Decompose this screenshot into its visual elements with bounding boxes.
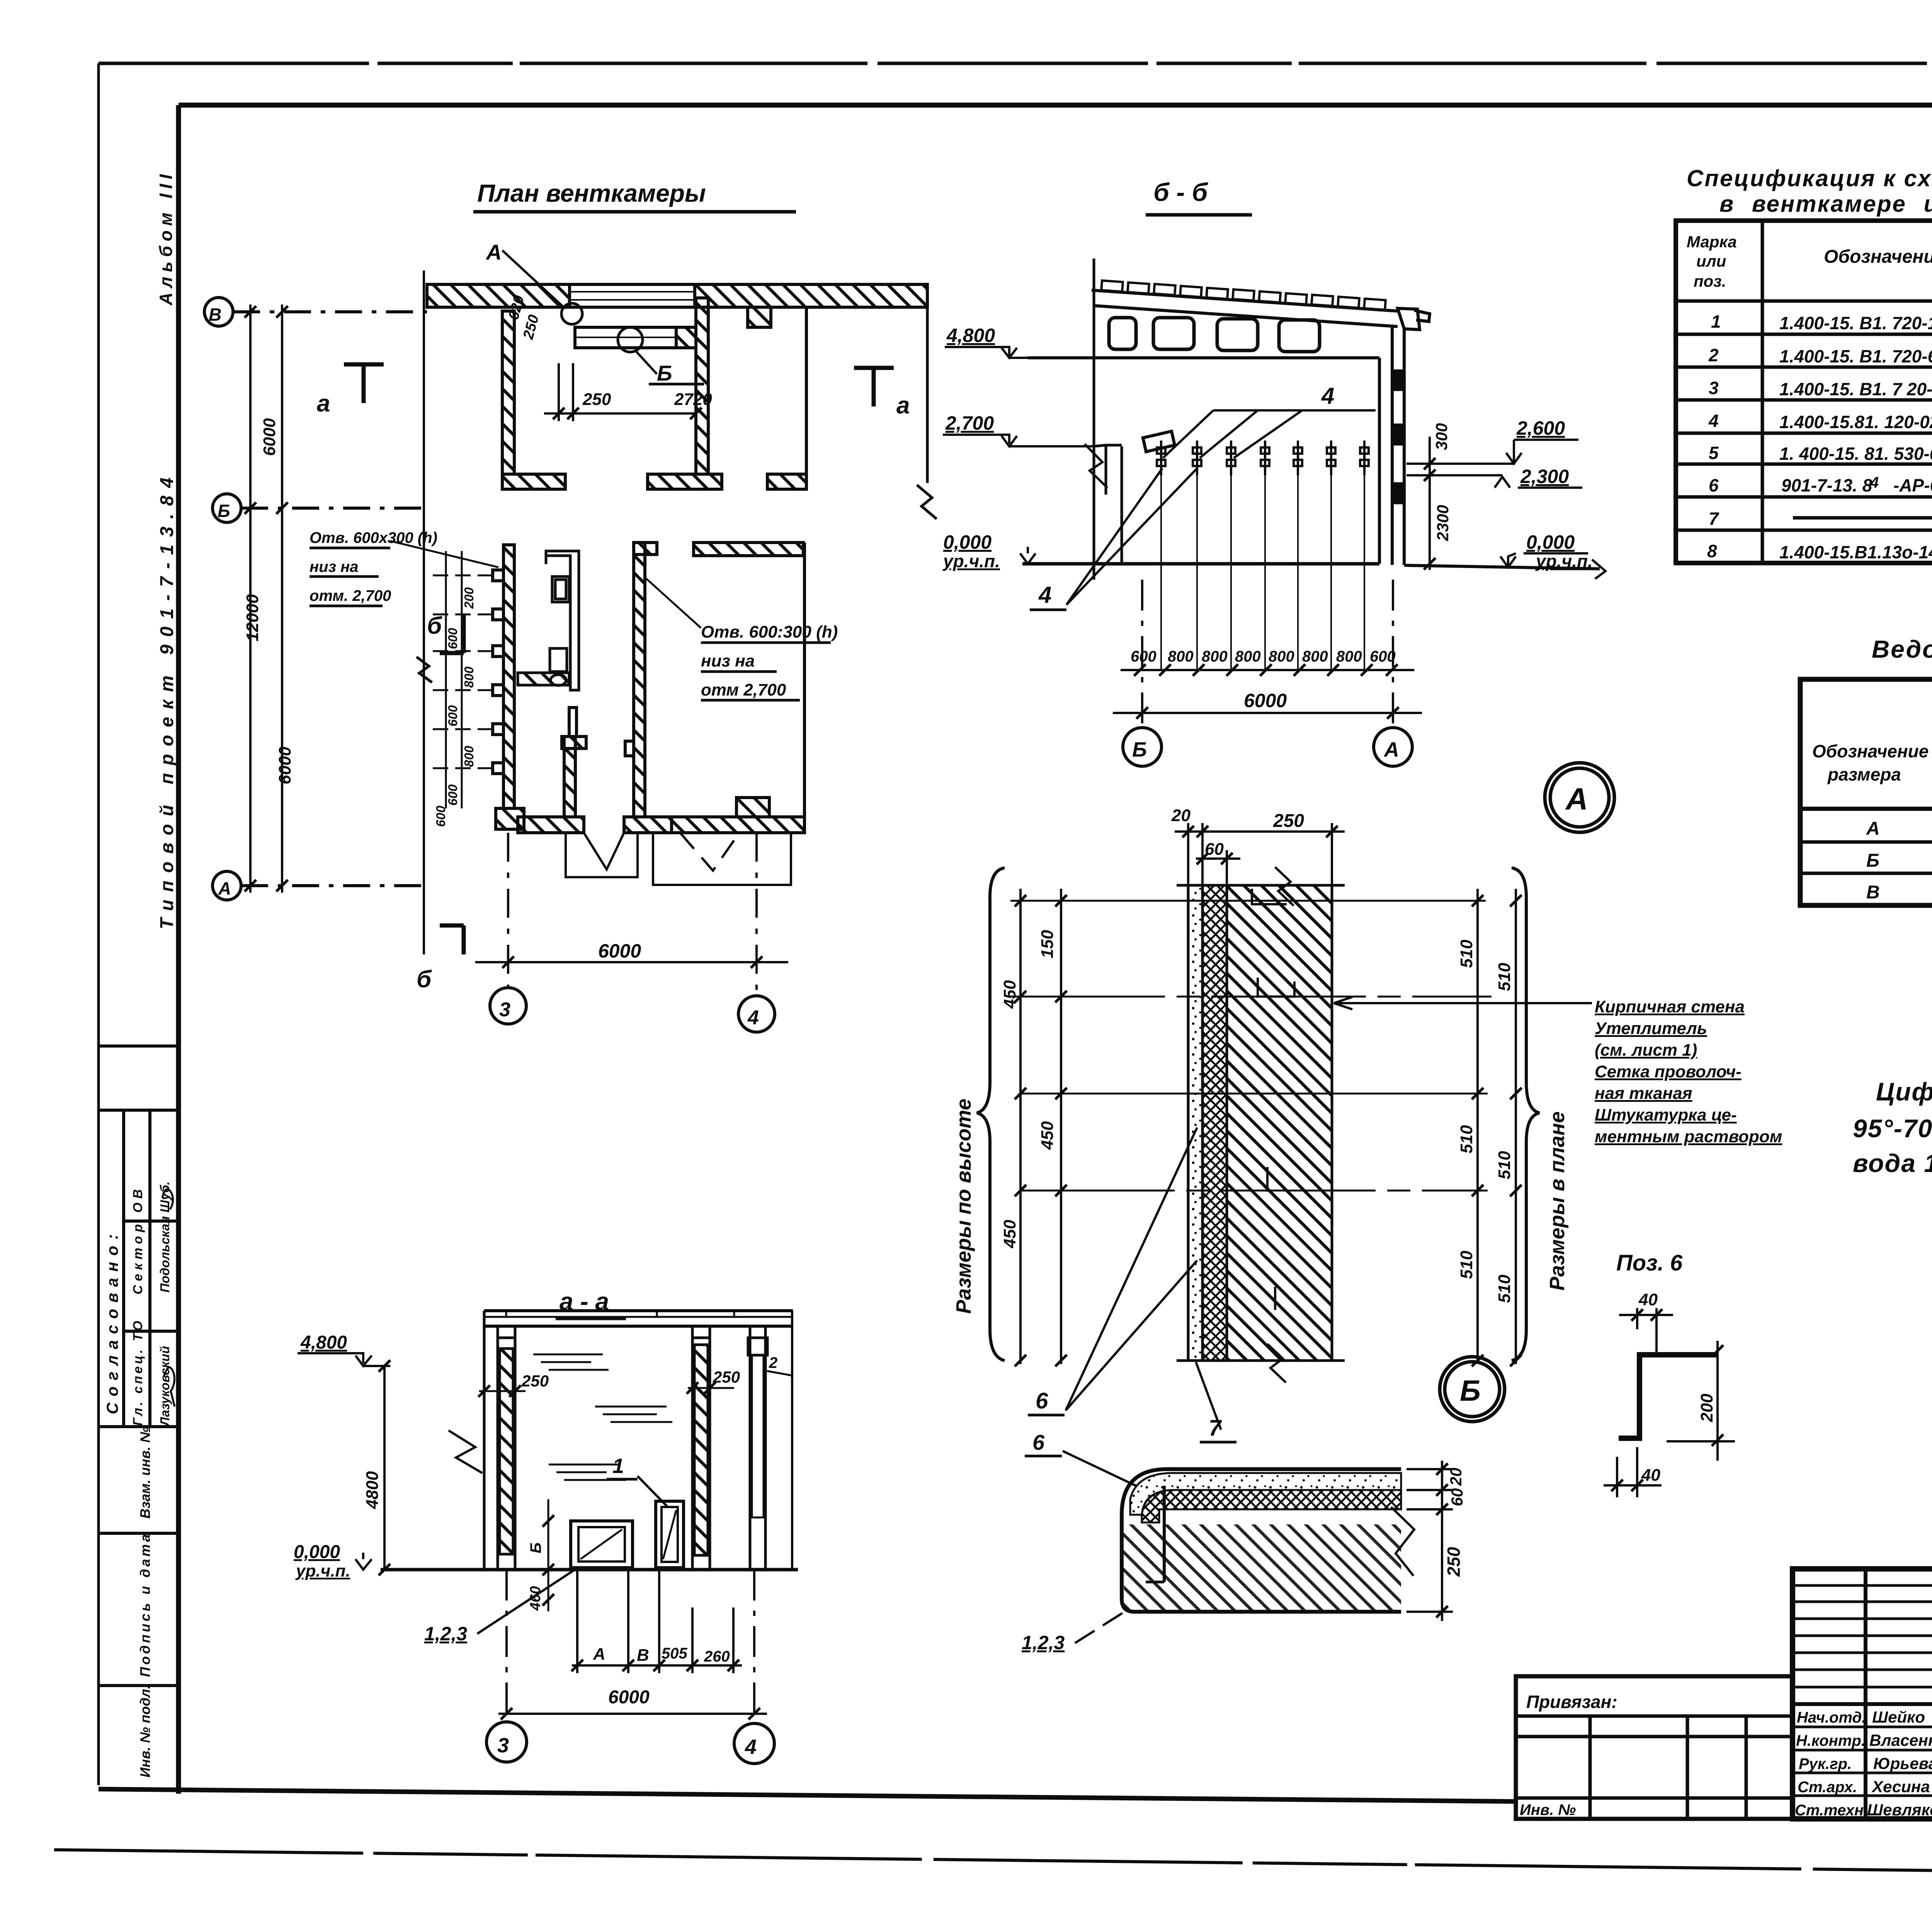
svg-text:901-7-13. 8: 901-7-13. 8 [1781,475,1872,495]
svg-text:1.400-15. В1. 720-68: 1.400-15. В1. 720-68 [1779,346,1932,366]
svg-text:4: 4 [1038,582,1051,608]
svg-text:размера: размера [1827,764,1901,784]
svg-text:отм 2,700: отм 2,700 [701,680,786,699]
svg-text:600: 600 [1370,648,1396,665]
svg-text:1.400-15. В1. 720-12: 1.400-15. В1. 720-12 [1779,313,1932,333]
svg-text:4: 4 [1708,411,1719,431]
PLAN hole note left [310,529,437,604]
svg-text:вода 150°- 70 °С.: вода 150°- 70 °С. [1853,1149,1932,1177]
WALL-DETAIL mesh hooks [1252,889,1294,1310]
svg-text:3: 3 [497,1734,509,1757]
svg-text:б: б [427,612,442,639]
BB-SECTION dim 300 2300 right [1424,437,1435,570]
PLAN node B marker [618,327,643,352]
svg-text:1,2,3: 1,2,3 [1022,1632,1065,1653]
PLAN lower left wall with anchors [493,545,524,829]
svg-text:Б: Б [218,501,230,521]
svg-text:Кирпичная стена: Кирпичная стена [1595,997,1745,1016]
svg-text:В: В [1866,882,1880,903]
svg-text:6000: 6000 [276,747,294,784]
WALL-DETAIL strips [1177,885,1345,1361]
PLAN section mark a left [344,364,384,403]
NODE-A marker circle [1545,763,1614,832]
svg-text:ная тканая: ная тканая [1595,1084,1692,1103]
svg-text:600: 600 [1131,648,1156,665]
AA-SECTION floor line [381,1568,798,1572]
svg-text:Ст.арх.: Ст.арх. [1798,1779,1857,1796]
VEDOMOST text [1812,691,1932,904]
PLAN axis circle B [204,298,427,900]
svg-text:20: 20 [1447,1468,1465,1486]
svg-text:Гл. спец. ТО: Гл. спец. ТО [131,1318,145,1426]
BB-SECTION ceiling line 4.800 [1028,356,1379,359]
svg-text:1,2,3: 1,2,3 [424,1623,467,1645]
svg-text:60: 60 [1205,840,1224,859]
WALL-DETAIL left dims [1015,889,1067,1366]
svg-text:ур.ч.п.: ур.ч.п. [942,551,1000,571]
svg-text:6000: 6000 [608,1687,650,1708]
svg-text:Типовой проект 901-7-13.84: Типовой проект 901-7-13.84 [157,470,177,929]
SPEC-TABLE title [1687,165,1932,217]
svg-text:Привязан:: Привязан: [1526,1692,1617,1712]
svg-text:Рук.гр.: Рук.гр. [1799,1755,1852,1772]
svg-text:250: 250 [1444,1547,1464,1577]
svg-text:250: 250 [521,1372,549,1390]
svg-text:Б: Б [657,361,672,385]
svg-text:260: 260 [704,1648,730,1665]
BDETAIL slab outline [1122,1469,1401,1612]
svg-text:510: 510 [1457,1125,1476,1153]
svg-text:505: 505 [662,1645,687,1662]
AA-SECTION dim 4800 [379,1360,390,1575]
WALL-DETAIL top dims [1175,823,1345,885]
svg-text:Лазуковский: Лазуковский [158,1346,172,1427]
svg-text:В: В [209,304,221,325]
svg-text:Цифры в числителе - для теплон: Цифры в числителе - для теплоносителя во… [1876,1077,1932,1106]
svg-text:800: 800 [1269,648,1294,665]
BDETAIL layers [1130,1473,1401,1515]
PLAN hole note right [701,623,838,699]
NOTE paragraph [1853,1077,1932,1177]
svg-text:б: б [417,966,432,993]
svg-text:6: 6 [1709,475,1719,495]
PLAN node A marker [561,303,582,324]
svg-text:4,800: 4,800 [946,325,995,346]
PLAN entrance stubs [566,833,791,885]
svg-text:800: 800 [1336,648,1362,665]
svg-text:40: 40 [1641,1466,1660,1485]
svg-text:4: 4 [747,1007,759,1029]
svg-text:800: 800 [1235,648,1261,665]
PLAN axis circle 3 [490,988,526,1024]
svg-text:Взам. инв. №: Взам. инв. № [137,1427,153,1519]
svg-text:800: 800 [462,666,476,688]
svg-text:ментным раствором: ментным раствором [1595,1127,1782,1146]
WALL-DETAIL left brace [977,868,1005,1361]
svg-text:А: А [485,240,502,264]
svg-text:А: А [1383,738,1399,761]
svg-text:Утеплитель: Утеплитель [1595,1019,1707,1038]
BB-SECTION left axis line [1093,259,1095,580]
PLAN section mark a right [854,368,894,407]
svg-text:низ на: низ на [701,651,755,670]
svg-text:2: 2 [769,1354,777,1371]
svg-text:6000: 6000 [260,418,279,456]
svg-text:Б: Б [1866,850,1879,871]
svg-text:510: 510 [1457,939,1476,968]
AA-SECTION dim 6000 [498,1570,767,1723]
PLAN section mark b bottom [440,925,464,954]
svg-text:Размеры в плане: Размеры в плане [1546,1111,1569,1291]
svg-text:800: 800 [1302,648,1328,665]
svg-text:4: 4 [1870,474,1879,491]
PLAN section mark b top [440,615,464,653]
TITLEBLOCK attach table [1516,1676,1793,1819]
svg-text:0,000: 0,000 [943,531,992,553]
WALL-DETAIL legend leader [1334,997,1592,1009]
svg-text:Марка: Марка [1687,233,1737,251]
svg-text:95°-70°С , в знаменателе - для: 95°-70°С , в знаменателе - для теплоноси… [1853,1114,1932,1143]
svg-text:250: 250 [713,1368,740,1386]
AA-SECTION right column [748,1311,792,1570]
svg-text:-АР-6: -АР-6 [1893,475,1932,495]
svg-text:Обозначение: Обозначение [1812,741,1929,761]
svg-text:Власенко: Власенко [1869,1731,1932,1749]
svg-text:Инв. № подл.: Инв. № подл. [137,1685,153,1778]
SPEC-TABLE grid [1676,221,1932,563]
svg-text:800: 800 [462,745,476,767]
svg-text:Шейко: Шейко [1872,1708,1925,1726]
BDETAIL right dims [1406,1461,1453,1621]
svg-text:510: 510 [1495,1151,1514,1179]
svg-text:Альбом III: Альбом III [156,170,176,306]
svg-text:2,700: 2,700 [945,412,994,434]
PLAN central partition [562,708,586,817]
svg-text:6: 6 [1036,1388,1048,1414]
PLAN right upper band [694,543,803,556]
BB-SECTION axis circle B [1123,728,1162,766]
PLAN right area beyond axis 4 [926,307,929,483]
svg-text:0,000: 0,000 [1526,531,1575,553]
AA-SECTION tanks [571,1501,684,1568]
svg-text:План венткамеры: План венткамеры [477,179,706,207]
svg-text:Хесина: Хесина [1871,1778,1930,1796]
svg-text:4: 4 [1321,383,1334,409]
svg-text:Штукатурка це-: Штукатурка це- [1595,1106,1737,1124]
svg-text:Юрьева: Юрьева [1873,1754,1932,1772]
PLAN wall at axis 4 upper [625,543,657,817]
svg-text:А: А [218,878,231,898]
svg-text:1: 1 [1711,311,1721,332]
svg-text:Отв. 600х300 (h): Отв. 600х300 (h) [310,529,437,546]
svg-text:6: 6 [1032,1430,1045,1454]
POS6 profile [1619,1355,1716,1438]
AA-SECTION roof slab [484,1311,793,1326]
svg-text:отм. 2,700: отм. 2,700 [310,587,391,604]
LEFT-MARGIN-STAMPS [99,1046,179,1686]
svg-text:а: а [896,392,910,419]
svg-text:б - б: б - б [1153,178,1209,206]
svg-text:А: А [593,1645,605,1664]
svg-text:250: 250 [582,390,611,409]
svg-text:ур.ч.п.: ур.ч.п. [295,1561,350,1580]
svg-text:Обозначение: Обозначение [1824,247,1932,267]
PLAN axis circle 4 [738,996,775,1032]
svg-text:450: 450 [1000,980,1019,1009]
PLAN upper room walls [502,298,806,489]
svg-text:510: 510 [1457,1250,1476,1279]
svg-text:Подпись и дата: Подпись и дата [137,1532,153,1677]
svg-text:поз.: поз. [1694,272,1726,290]
svg-text:Ст.техн.: Ст.техн. [1795,1802,1868,1819]
svg-text:В: В [637,1646,649,1665]
svg-text:8: 8 [1707,541,1717,561]
svg-text:800: 800 [1202,648,1228,665]
svg-text:Поз. 6: Поз. 6 [1616,1250,1683,1276]
svg-text:4,800: 4,800 [300,1332,347,1353]
svg-text:Б: Б [527,1543,544,1553]
svg-text:200: 200 [462,587,476,609]
PLAN bottom walls [518,798,804,833]
VEDOMOST grid [1800,679,1932,905]
svg-text:250: 250 [1273,811,1304,831]
svg-text:Шевлякова: Шевлякова [1867,1801,1932,1819]
BB-SECTION dim chain 600-800 [1121,664,1414,676]
svg-text:4: 4 [745,1735,757,1759]
svg-text:2300: 2300 [1434,505,1452,541]
svg-text:а: а [317,390,330,417]
outer border bottom dashed [54,1850,1932,1878]
PLAN left dimension lines [245,304,288,893]
svg-text:5: 5 [1709,443,1719,463]
AA-SECTION dim B 460 [543,1499,554,1611]
WALL-DETAIL level lines [1010,901,1492,1191]
svg-text:510: 510 [1495,963,1514,991]
svg-text:1.400-15. В1. 7 20-52: 1.400-15. В1. 7 20-52 [1779,379,1932,399]
BB-SECTION windows [1109,318,1320,352]
svg-text:3: 3 [1709,378,1719,398]
svg-text:Ведомость проемов для калорифе: Ведомость проемов для калориферов [1872,635,1932,663]
svg-text:4800: 4800 [363,1471,382,1509]
WALL-DETAIL legend text [1595,997,1782,1146]
outer border top (dashed scan line) [99,62,1932,65]
AA-SECTION right wall [692,1326,710,1570]
svg-text:600: 600 [434,805,448,827]
SPEC-TABLE header text [1687,227,1932,298]
AA-SECTION left wall [484,1311,515,1570]
svg-text:450: 450 [1000,1220,1019,1249]
WALL-DETAIL right brace [1512,868,1539,1361]
svg-text:1.400-15.81. 120-02: 1.400-15.81. 120-02 [1779,412,1932,432]
PLAN b-b cut line [423,270,425,954]
svg-text:Нач.отд.: Нач.отд. [1797,1709,1866,1726]
svg-text:Сектор ОВ: Сектор ОВ [131,1186,145,1294]
svg-text:7: 7 [1709,509,1719,529]
svg-text:600: 600 [446,784,460,806]
PLAN top wall band [427,284,927,327]
svg-text:в венткамере и в камерах тра: в венткамере и в камерах трансформаторов… [1719,191,1932,217]
svg-text:1. 400-15. 81. 530-04: 1. 400-15. 81. 530-04 [1779,444,1932,464]
BB-SECTION axis circle A [1374,728,1412,766]
BDETAIL break right [1391,1507,1414,1576]
svg-text:Размеры по высоте: Размеры по высоте [952,1099,975,1314]
svg-text:20: 20 [1171,806,1190,825]
AA-SECTION bottom dims [571,1571,742,1673]
svg-text:2: 2 [1708,345,1719,365]
SPEC-TABLE rows text [1707,302,1932,563]
BB-SECTION door and break [1085,444,1122,564]
svg-text:450: 450 [1038,1121,1057,1150]
svg-text:А: А [1866,818,1880,839]
AA-SECTION water ripples [0,0,672,1480]
BB-SECTION dim 6000 [1113,580,1422,726]
BB-SECTION fan box [1143,431,1175,452]
WALL-DETAIL break marks [1275,867,1294,906]
BDETAIL inner line [1163,1486,1166,1582]
svg-text:2,600: 2,600 [1516,417,1565,439]
BB-SECTION floor line [1022,562,1379,566]
svg-text:600: 600 [446,705,460,726]
inner frame [176,105,181,1794]
svg-text:150: 150 [1038,930,1057,958]
WALL-DETAIL right dims [1472,889,1522,1366]
svg-text:800: 800 [1168,648,1194,665]
PLAN door swings [584,833,738,871]
svg-text:или: или [1696,252,1726,270]
svg-text:600: 600 [446,628,460,649]
BB-SECTION anchors pos4 [1157,441,1369,670]
svg-text:А: А [1565,782,1588,816]
svg-text:1: 1 [612,1454,624,1478]
svg-text:Отв. 600:300 (h): Отв. 600:300 (h) [701,623,838,641]
svg-text:Б: Б [1460,1374,1481,1407]
PLAN dim 250 2720 [544,363,702,421]
PLAN bottom dim 6000 [475,833,788,996]
svg-text:510: 510 [1495,1274,1514,1303]
svg-text:Сетка проволоч-: Сетка проволоч- [1595,1062,1742,1081]
PLAN toilet room [518,551,579,690]
AA-SECTION axis circle 4 [734,1723,774,1764]
svg-text:12000: 12000 [243,594,262,641]
TITLEBLOCK main stamp [1793,1569,1932,1819]
svg-text:Н.контр.: Н.контр. [1796,1732,1866,1749]
svg-text:40: 40 [1638,1290,1658,1309]
svg-text:300: 300 [1432,423,1451,450]
BB-SECTION roof slab [1092,290,1430,330]
svg-text:Б: Б [1132,738,1147,761]
svg-text:3: 3 [499,998,510,1021]
svg-text:Инв. №: Инв. № [1520,1801,1576,1818]
svg-text:низ на: низ на [310,558,359,575]
NODE-B marker circle [1440,1357,1505,1422]
svg-text:Согласовано:: Согласовано: [103,1228,121,1414]
PLAN lower dim chain [433,551,493,808]
svg-text:Подольская Шуб.: Подольская Шуб. [158,1181,172,1293]
svg-text:Спецификация к схеме расположе: Спецификация к схеме расположения заклад… [1687,165,1932,191]
svg-text:2720: 2720 [674,390,712,409]
TITLEBLOCK signers [1795,1709,1868,1819]
svg-text:6000: 6000 [598,940,641,962]
outer border left [97,63,100,1785]
svg-text:60: 60 [1448,1488,1466,1506]
svg-text:1.400-15.В1.13о-14: 1.400-15.В1.13о-14 [1779,542,1932,562]
svg-text:2,300: 2,300 [1520,466,1569,487]
svg-text:6000: 6000 [1244,690,1287,711]
svg-text:0,000: 0,000 [294,1542,340,1562]
svg-text:(см. лист 1): (см. лист 1) [1595,1041,1697,1060]
AA-SECTION axis circle 3 [486,1722,527,1762]
BB-SECTION roof plates [1101,281,1386,310]
POS6 dims [1604,1308,1735,1497]
BB-SECTION right wall [1379,327,1404,565]
svg-text:200: 200 [1697,1393,1716,1422]
